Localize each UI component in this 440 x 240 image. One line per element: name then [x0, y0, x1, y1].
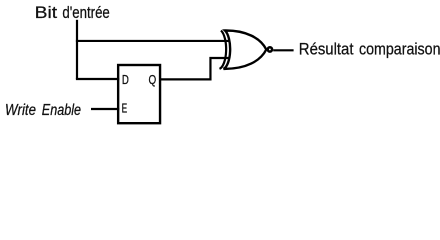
gate U2: XNOR extra input arc	[220, 31, 227, 69]
node: Résultat comparaison label	[299, 41, 440, 59]
node: Write Enable label	[5, 102, 81, 119]
svg-text:E: E	[122, 101, 128, 116]
wire: Write Enable to E input	[91, 108, 119, 110]
gate U2: XNOR output bubble	[268, 47, 272, 51]
gate U2: XNOR body	[224, 30, 267, 68]
svg-text:comparaison: comparaison	[359, 41, 440, 59]
svg-text:Q: Q	[149, 72, 157, 87]
svg-text:Résultat: Résultat	[299, 41, 354, 59]
node: Bit d'entrée label	[35, 4, 110, 22]
wire: top input to XNOR	[76, 40, 229, 42]
svg-text:Enable: Enable	[42, 102, 81, 119]
svg-text:Write: Write	[5, 102, 36, 119]
svg-text:D: D	[122, 72, 129, 87]
svg-text:d'entrée: d'entrée	[62, 4, 109, 22]
wire: to D input	[76, 78, 119, 80]
svg-text:Bit: Bit	[35, 4, 58, 22]
wire: Q output up to XNOR lower input	[160, 58, 230, 79]
flip-flop U1 (D latch)	[118, 65, 160, 123]
wire: vertical drop from Bit d'entrée	[76, 20, 78, 79]
wire: XNOR output to label	[273, 49, 293, 51]
